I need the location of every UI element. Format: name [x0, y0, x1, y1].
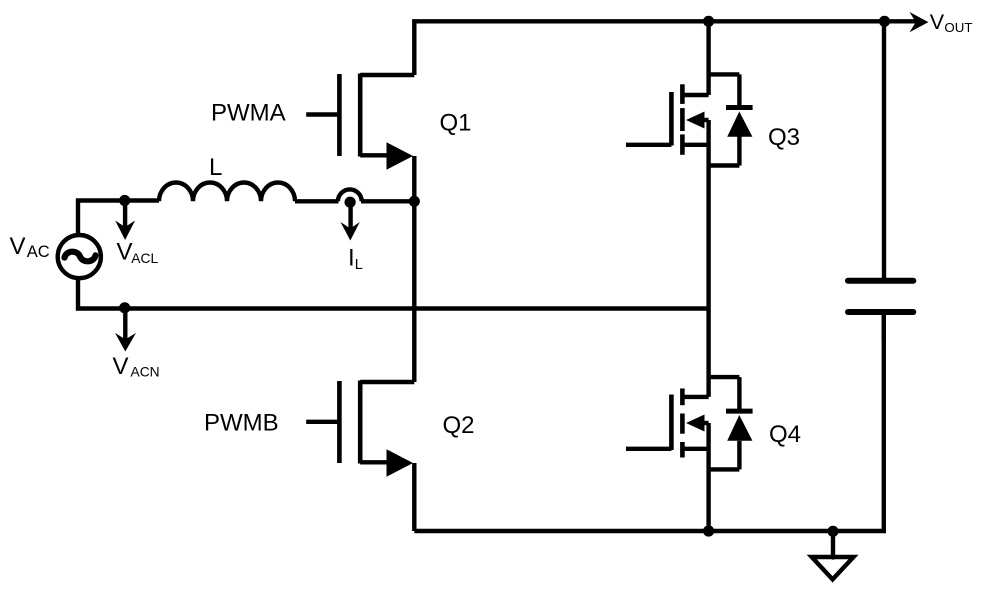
transistor Q2 channel bar [358, 381, 363, 464]
svg-text:PWMA: PWMA [211, 99, 286, 126]
capacitor C output: top lead [882, 21, 886, 278]
svg-text:AC: AC [27, 243, 50, 261]
transistor Q1 gate lead (PWMA) [306, 112, 338, 116]
transistor Q3 drain lead [682, 93, 708, 97]
transistor Q4 body lead with arrow [698, 421, 709, 425]
transistor Q4 channel segments [680, 389, 685, 406]
transistor Q3 source lead [682, 143, 708, 147]
transistor Q4 gate lead [626, 447, 671, 451]
VACL arrow [123, 204, 127, 228]
transistor Q2 source lead [360, 460, 388, 464]
transistor Q3 gate lead [626, 143, 671, 147]
svg-text:Q2: Q2 [443, 412, 475, 439]
transistor Q4 gate bar [669, 395, 674, 451]
transistor Q2 source arrow [387, 449, 414, 477]
svg-text:Q1: Q1 [440, 109, 472, 136]
junction dot VACN [119, 302, 130, 313]
wire VAC top lead [78, 201, 159, 236]
transistor Q4 drain lead [682, 395, 708, 399]
svg-text:Q4: Q4 [769, 421, 801, 448]
svg-text:L: L [209, 154, 222, 181]
junction dot top rail at output capacitor [879, 16, 890, 27]
diode D4 (body diode of Q4) [737, 377, 741, 409]
svg-text:V: V [930, 10, 945, 34]
transistor Q3 source vertical to midpoint [706, 120, 710, 309]
AC source VAC sine symbol [65, 252, 96, 262]
transistor Q4 top connection to body diode [709, 375, 740, 379]
wire Q1 source to Q2 drain (switch node vertical) [412, 156, 416, 382]
svg-text:ACL: ACL [131, 251, 158, 266]
transistor Q2 gate lead (PWMB) [306, 420, 338, 424]
transistor Q3 bottom connection to body diode [709, 163, 740, 167]
junction dot switch node at inductor [409, 196, 420, 207]
transistor Q2 gate bar [337, 381, 342, 463]
transistor Q3 body lead with arrow [698, 118, 709, 122]
svg-text:L: L [355, 257, 363, 273]
transistor Q1 gate bar [337, 74, 342, 156]
capacitor C bottom lead [882, 315, 886, 340]
VACN arrow [123, 311, 127, 341]
svg-text:V: V [117, 239, 133, 266]
transistor Q1 source arrow [387, 142, 414, 170]
wire current probe to switch node [361, 199, 414, 203]
junction dot bottom rail at ground [827, 526, 838, 537]
svg-text:V: V [113, 353, 129, 380]
junction dot IL probe [345, 197, 356, 208]
transistor Q3 gate bar [669, 92, 674, 146]
capacitor C bottom plate [848, 309, 913, 315]
IL arrow [348, 205, 352, 230]
transistor Q4 bottom connection to body diode [709, 467, 740, 471]
current probe hop arc at IL [338, 189, 362, 201]
transistor Q3 top connection to body diode [709, 72, 740, 76]
wire VAC bottom lead and neutral rail to Q3/Q4 midpoint [78, 278, 709, 309]
diode D3 (body diode of Q3) [737, 74, 741, 105]
junction dot bottom rail at Q4 source [703, 525, 714, 536]
wire Q2 source to bottom rail [412, 463, 416, 531]
node VOUT arrowhead [910, 12, 929, 32]
svg-text:I: I [348, 245, 355, 272]
svg-text:PWMB: PWMB [204, 410, 279, 437]
transistor Q3 channel segments [680, 84, 685, 104]
svg-text:Q3: Q3 [768, 124, 800, 151]
svg-text:ACN: ACN [131, 365, 160, 380]
wire inductor to current probe [295, 199, 339, 203]
junction dot top rail at Q3 drain [703, 16, 714, 27]
transistor Q2 drain lead [360, 380, 414, 384]
ground symbol [812, 557, 854, 579]
transistor Q4 source lead [682, 447, 708, 451]
svg-text:V: V [10, 233, 26, 260]
capacitor C top plate [848, 278, 913, 284]
transistor Q1 channel bar [358, 74, 363, 157]
transistor Q3 drain vertical from top rail [706, 21, 710, 95]
inductor L winding [159, 183, 295, 202]
transistor Q4 source vertical to bottom rail [706, 423, 710, 531]
AC source VAC circle [58, 235, 101, 278]
transistor Q4 drain vertical from midpoint [706, 309, 710, 397]
svg-text:OUT: OUT [944, 20, 972, 35]
wire top rail (Q1 drain to VOUT) [414, 21, 919, 75]
junction dot VACL [119, 195, 130, 206]
transistor Q1 source lead [360, 153, 388, 157]
transistor Q1 drain lead [360, 73, 414, 77]
wire bottom rail [414, 315, 884, 531]
